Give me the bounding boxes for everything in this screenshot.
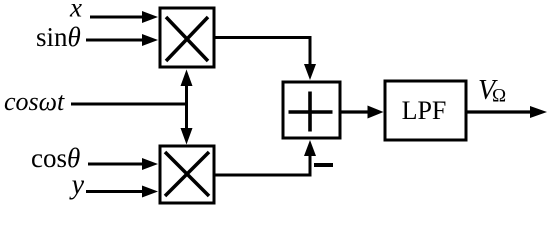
wire: sin&theta; input arrow into multiplier M1 (86, 34, 158, 46)
svg-text:y: y (69, 170, 85, 201)
multiplier M2 X symbol (165, 152, 209, 196)
minus sign at adder lower input (314, 163, 333, 167)
multiplier M1 box (160, 8, 214, 67)
svg-text:x: x (69, 0, 82, 23)
wire: x input arrow into multiplier M1 (90, 11, 158, 23)
svg-text:LPF: LPF (402, 96, 447, 125)
LPF block U1 (385, 81, 466, 140)
svg-text:cosωt: cosωt (4, 87, 65, 116)
wire: down arrowhead into M2 top (181, 128, 193, 145)
multiplier M1 X symbol (166, 17, 208, 61)
wire: cos&theta; input arrow into multiplier M2 (88, 158, 158, 170)
wire: cos&omega;t horizontal feed line (71, 103, 188, 106)
adder A1 plus symbol (289, 92, 333, 132)
svg-text:Ω: Ω (492, 86, 506, 107)
wire: y input arrow into multiplier M2 (86, 186, 158, 198)
wire: M1 output to adder (right then down) (214, 38, 316, 81)
wire: vertical branch of cos&omega;t to both multipliers (185, 80, 188, 134)
wire: final output arrow (467, 106, 547, 118)
multiplier M2 box (160, 146, 214, 203)
svg-text:sinθ: sinθ (36, 22, 81, 52)
wire: M2 output to adder (right then up) (214, 140, 316, 175)
adder A1 box (283, 82, 340, 138)
wire: adder output to LPF (341, 106, 384, 119)
wire: up arrowhead into M1 bottom (181, 70, 193, 87)
svg-text:cosθ: cosθ (31, 143, 80, 173)
